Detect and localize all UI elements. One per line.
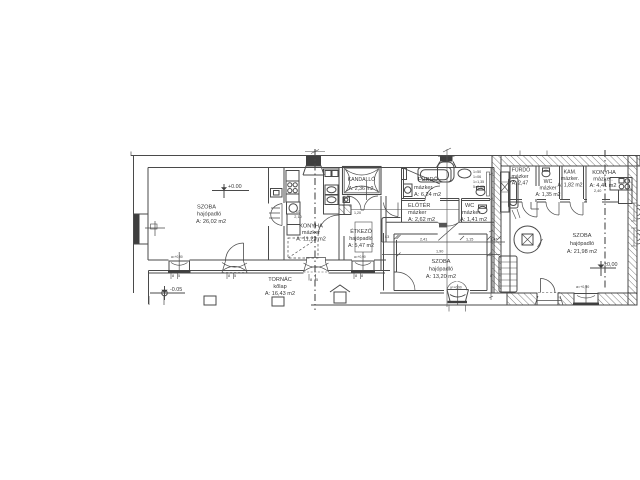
niche in wall szoba1-konyha bbox=[271, 189, 283, 198]
porch symbol house bbox=[334, 292, 346, 303]
window W-szoba13 bbox=[447, 290, 469, 304]
wall corner eloter sw bbox=[382, 218, 401, 243]
room label WC bbox=[460, 203, 487, 223]
right dwelling interior walls top row bbox=[536, 166, 539, 202]
svg-text:-0.05: -0.05 bbox=[170, 287, 182, 293]
svg-text:A: 6,24 m2: A: 6,24 m2 bbox=[414, 192, 441, 198]
wall between szoba1 and konyha left face bbox=[268, 168, 270, 261]
wall bottom left dwelling inner face bbox=[148, 259, 386, 261]
section dashed line B bbox=[446, 149, 448, 307]
svg-text:a=+0,90: a=+0,90 bbox=[171, 255, 183, 259]
svg-text:mázker: mázker bbox=[462, 210, 480, 216]
svg-text:2,40: 2,40 bbox=[594, 189, 601, 193]
svg-text:1,20: 1,20 bbox=[354, 211, 361, 215]
bathroom tub bbox=[418, 168, 451, 183]
room label ETKEZO bbox=[348, 228, 374, 249]
room label KAM right bbox=[557, 170, 582, 189]
svg-text:mázker: mázker bbox=[539, 186, 556, 192]
dashed cupboard kitchen bbox=[288, 238, 318, 258]
dimension chain szoba13 lower bbox=[382, 253, 500, 257]
kitchen counter right with sinks bbox=[324, 169, 340, 214]
wall bottom left dwelling outer face bbox=[149, 271, 391, 305]
svg-text:SZOBA: SZOBA bbox=[573, 233, 592, 239]
svg-text:1=1,35: 1=1,35 bbox=[473, 180, 484, 184]
svg-text:8: 8 bbox=[310, 278, 312, 282]
room label SZOBA21 bbox=[567, 233, 597, 255]
level marker +0.00 szoba1 bbox=[212, 184, 249, 198]
door arcs right rooms bbox=[522, 202, 583, 217]
door D1 arc into szoba1 bbox=[269, 204, 282, 226]
kitchen counter top with stove circles bbox=[286, 171, 299, 182]
flue bump right wall B bbox=[637, 230, 640, 244]
niche cupboard party wall bbox=[501, 172, 510, 212]
svg-text:TORNÁC: TORNÁC bbox=[268, 276, 292, 283]
svg-text:hajópadló: hajópadló bbox=[570, 241, 594, 247]
porch column 2 bbox=[272, 297, 284, 306]
door right dwelling bottom arc bbox=[541, 279, 556, 294]
svg-text:1=06: 1=06 bbox=[473, 175, 481, 179]
slash tick near szoba21 door bbox=[538, 239, 543, 247]
svg-text:A: 5,47 m2: A: 5,47 m2 bbox=[348, 243, 374, 249]
svg-text:FÜRDŐ: FÜRDŐ bbox=[512, 167, 530, 174]
wall elolter wc bottom bbox=[386, 222, 494, 234]
svg-text:a=+0,90: a=+0,90 bbox=[354, 255, 366, 259]
wall between szoba1 and konyha right face bbox=[283, 168, 285, 261]
svg-text:1=50: 1=50 bbox=[473, 170, 481, 174]
svg-text:A: 1,41 m2: A: 1,41 m2 bbox=[460, 217, 487, 223]
svg-text:A: 26,02 m2: A: 26,02 m2 bbox=[196, 219, 226, 225]
svg-text:A: 21,98 m2: A: 21,98 m2 bbox=[567, 249, 597, 255]
svg-text:8: 8 bbox=[228, 274, 230, 278]
svg-text:KANDALLÓ: KANDALLÓ bbox=[348, 176, 376, 183]
vertical dim chain party wall bbox=[489, 168, 493, 300]
svg-text:10: 10 bbox=[296, 210, 300, 214]
svg-text:2,10: 2,10 bbox=[294, 215, 301, 219]
room label ELOTER bbox=[408, 202, 435, 223]
door corridor arc bbox=[384, 203, 399, 217]
window szoba13 swing arcs bbox=[447, 282, 467, 291]
svg-text:hajópadló: hajópadló bbox=[349, 236, 372, 242]
svg-text:FÜRDŐ: FÜRDŐ bbox=[418, 176, 439, 183]
wall szoba13 right bbox=[486, 234, 488, 291]
door szoba13 left arc bbox=[397, 272, 416, 291]
svg-text:8: 8 bbox=[490, 274, 492, 278]
table etkezo bbox=[355, 222, 372, 252]
wall konyha/etkezo left face bbox=[338, 168, 340, 261]
window right dwelling bottom bbox=[574, 294, 598, 304]
stove flue lines bbox=[512, 209, 520, 219]
svg-text:8: 8 bbox=[172, 274, 174, 278]
svg-text:1,15: 1,15 bbox=[466, 238, 473, 242]
tick pairs under bottom openings bbox=[171, 273, 466, 312]
svg-text:hajópadló: hajópadló bbox=[429, 267, 453, 273]
section dashed line C bbox=[604, 150, 606, 290]
room label SZOBA1 bbox=[196, 205, 226, 226]
bathroom sink bbox=[458, 169, 471, 178]
wall szoba13 bottom inner bbox=[394, 290, 487, 292]
corner tick top left bbox=[130, 152, 132, 157]
wall furdo bottom bbox=[402, 198, 491, 200]
svg-text:1,90: 1,90 bbox=[436, 250, 443, 254]
svg-text:mázker: mázker bbox=[408, 210, 426, 216]
svg-text:mázker.: mázker. bbox=[593, 177, 613, 183]
window etkezo bottom bbox=[352, 261, 374, 271]
door furdo arc bbox=[425, 186, 440, 201]
hatched pillar etkezo corner bbox=[339, 205, 351, 215]
bathroom wc bbox=[476, 188, 485, 195]
wire top outer wall line bbox=[131, 155, 637, 157]
label bath list bbox=[473, 170, 484, 189]
door french szoba1 bottom bbox=[226, 243, 244, 261]
svg-text:mázker: mázker bbox=[511, 174, 528, 180]
svg-text:A: 1,35 m2: A: 1,35 m2 bbox=[535, 192, 560, 198]
wall left exterior outer face bbox=[133, 156, 135, 294]
fireplace inner pillow curves bbox=[345, 169, 379, 200]
wall wc left bbox=[458, 199, 460, 223]
tick marks above top wall bbox=[305, 148, 547, 156]
svg-text:5: 5 bbox=[178, 274, 180, 278]
chimney bath top bbox=[440, 156, 453, 162]
svg-text:ELŐTÉR: ELŐTÉR bbox=[408, 202, 430, 209]
svg-text:a=+0,90: a=+0,90 bbox=[450, 286, 462, 290]
chimney kitchen top bbox=[306, 156, 321, 166]
svg-text:KONYHA: KONYHA bbox=[299, 224, 323, 230]
dimension ticks under bottom windows bbox=[172, 274, 492, 282]
svg-text:1,47: 1,47 bbox=[490, 238, 497, 242]
svg-text:kőlap: kőlap bbox=[273, 284, 286, 290]
right rooms bottom wall bbox=[510, 200, 619, 203]
svg-text:L3: L3 bbox=[385, 235, 389, 239]
svg-text:8: 8 bbox=[355, 274, 357, 278]
svg-text:mázker.: mázker. bbox=[561, 176, 579, 182]
dim line hall bbox=[351, 209, 459, 211]
right dwelling bottom wall hatched bbox=[507, 293, 537, 305]
right dwelling top wall hatched bbox=[501, 156, 640, 167]
wall etkezo right bbox=[380, 196, 382, 271]
door D2 arc konyha to etkezo bbox=[318, 215, 339, 236]
wire top inner wall line left dwelling bbox=[148, 167, 494, 169]
svg-text:8: 8 bbox=[361, 274, 363, 278]
door opening under kandallo arcs bbox=[347, 196, 378, 210]
dimension chain szoba13 upper bbox=[382, 235, 505, 242]
room label KANDALLO bbox=[348, 176, 376, 192]
room label FURDO right bbox=[511, 167, 530, 187]
wall stub below right wc bbox=[531, 202, 539, 209]
svg-text:A: 1,82 m2: A: 1,82 m2 bbox=[557, 183, 582, 189]
room label TORNAC bbox=[265, 276, 295, 297]
svg-text:SZOBA: SZOBA bbox=[432, 259, 451, 265]
fireplace KANDALLO block border bbox=[343, 167, 382, 195]
svg-text:A: 11,22 m2: A: 11,22 m2 bbox=[296, 237, 326, 243]
room label FURDO bbox=[414, 176, 441, 198]
svg-text:2,41: 2,41 bbox=[420, 238, 427, 242]
svg-text:mázker: mázker bbox=[302, 230, 320, 236]
room label KONYHA bbox=[296, 224, 326, 243]
masonry stove circle bbox=[514, 226, 541, 253]
radiator furdo right wall bbox=[487, 172, 490, 196]
svg-text:KAM.: KAM. bbox=[564, 170, 577, 176]
svg-text:A: 2,47: A: 2,47 bbox=[512, 181, 529, 187]
wall left exterior inner face bbox=[147, 168, 149, 261]
level marker pm0.00 right szoba bbox=[590, 261, 616, 276]
level marker -0.05 porch bbox=[150, 286, 185, 300]
wall bottom south wing outer faces bbox=[380, 292, 507, 294]
svg-text:mázker.: mázker. bbox=[414, 185, 434, 191]
right dwelling right wall hatched bbox=[628, 156, 637, 306]
wc room toilet bbox=[478, 206, 487, 213]
window bottom szoba1 bbox=[169, 261, 190, 271]
right dwelling wc toilet bbox=[542, 170, 550, 177]
flue bump right wall A bbox=[637, 205, 640, 219]
room label WC right bbox=[535, 179, 560, 198]
wall konyha/etkezo right face bbox=[343, 196, 345, 260]
svg-text:A: 16,43 m2: A: 16,43 m2 bbox=[265, 291, 295, 297]
wall elolter left bbox=[401, 168, 403, 223]
svg-text:hajópadló: hajópadló bbox=[197, 212, 221, 218]
door elolter to szoba13 arc bbox=[438, 223, 459, 241]
niche box kandallo bottom bbox=[343, 197, 350, 203]
wall cabinet furdo bbox=[402, 169, 407, 180]
dimension ticks porch left bbox=[149, 296, 164, 305]
dimension labels szoba13 chain bbox=[385, 235, 497, 254]
ladder stair feature bbox=[499, 256, 517, 292]
svg-text:A: 2,36 m2: A: 2,36 m2 bbox=[348, 186, 373, 192]
svg-text:A: 13,20 m2: A: 13,20 m2 bbox=[426, 274, 456, 280]
washing machine bbox=[404, 184, 413, 197]
svg-text:a=+0,90: a=+0,90 bbox=[576, 285, 589, 289]
svg-text:ÉTKEZŐ: ÉTKEZŐ bbox=[350, 228, 372, 235]
svg-text:5: 5 bbox=[316, 278, 318, 282]
room label SZOBA13 bbox=[426, 259, 456, 280]
svg-text:KONYHA: KONYHA bbox=[592, 170, 616, 176]
svg-text:WC: WC bbox=[465, 203, 474, 209]
window W1 left wall dark block bbox=[134, 214, 140, 244]
svg-text:±0,00: ±0,00 bbox=[604, 262, 617, 268]
door konyha to porch trapezoid bbox=[304, 257, 329, 272]
label kitchen small dims bbox=[294, 210, 301, 219]
wall szoba13 left bbox=[393, 234, 395, 291]
strike line furdo label bbox=[403, 168, 440, 184]
section dashed line A bbox=[314, 149, 316, 310]
svg-text:5: 5 bbox=[234, 274, 236, 278]
svg-text:WC: WC bbox=[544, 179, 553, 185]
svg-text:A: 2,62 m2: A: 2,62 m2 bbox=[408, 217, 435, 223]
right konyha counter bbox=[610, 178, 632, 191]
svg-text:+0.00: +0.00 bbox=[228, 184, 242, 190]
room label KONYHA right bbox=[589, 170, 616, 189]
svg-text:5=2,05: 5=2,05 bbox=[473, 185, 484, 189]
svg-text:SZOBA: SZOBA bbox=[197, 205, 216, 211]
right dwelling bath tub vertical bbox=[509, 178, 519, 208]
window marker left wall cross bbox=[145, 221, 165, 236]
porch column 1 bbox=[204, 296, 216, 305]
party wall hatched band bbox=[492, 156, 501, 294]
